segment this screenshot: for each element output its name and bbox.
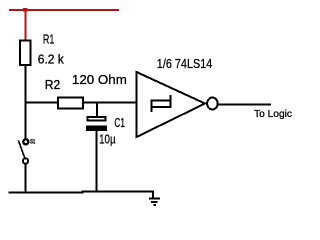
VCC rail (red) [9,9,119,11]
resistor R2 [58,97,83,108]
switch S1 lever [18,141,24,158]
U1 hysteresis symbol right vertical [170,95,172,108]
wire capacitor C1 bottom to ground bus [96,131,98,193]
ground stub [152,191,154,198]
capacitor C1 top plate [88,117,106,121]
ground symbol bar 2 [151,201,158,203]
capacitor C1 bottom plate [86,125,107,131]
ground bus left segment [9,192,84,194]
junction on VCC rail [23,8,27,12]
U1 hysteresis symbol left vertical [151,100,153,113]
U1 output inversion bubble [207,98,218,110]
U1 hysteresis symbol top horizontal [151,100,172,102]
switch S1 bottom contact [23,158,28,163]
svg-text:C1: C1 [114,115,125,130]
switch S1 top contact [23,139,28,144]
op-amp style inverter U1 triangle [137,72,206,137]
svg-text:120 Ohm: 120 Ohm [72,72,127,87]
ground symbol bar 3 [153,204,156,206]
svg-text:S1: S1 [30,139,35,146]
wire junction to capacitor C1 top [96,103,98,117]
svg-text:R2: R2 [45,77,61,92]
ground bus right segment [82,190,155,192]
wire R1 bottom to node A [25,65,27,103]
node A horizontal wire to inverter input [25,102,138,104]
wire node A down to switch S1 [25,103,27,140]
svg-text:6.2 k: 6.2 k [38,51,64,66]
svg-text:R1: R1 [43,32,55,47]
svg-text:To Logic: To Logic [254,109,292,120]
U1 hysteresis symbol bottom horizontal [151,106,172,108]
wire switch S1 to ground bus [25,164,27,194]
wire VCC rail to R1 top (red) [25,10,27,40]
svg-text:1/6 74LS14: 1/6 74LS14 [157,56,213,71]
svg-text:10µ: 10µ [99,132,116,147]
ground symbol bar 1 [149,198,160,200]
resistor R1 [20,41,31,66]
wire U1 output to logic [219,104,271,106]
